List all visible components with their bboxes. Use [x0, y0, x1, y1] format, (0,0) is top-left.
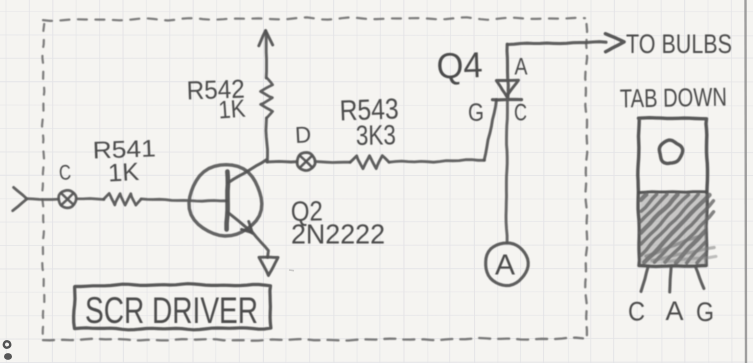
package pins	[641, 266, 704, 292]
resistor R541	[104, 193, 141, 205]
resistor R542	[261, 78, 273, 118]
svg-text:C: C	[58, 161, 72, 185]
svg-text:G: G	[696, 297, 714, 327]
node C	[58, 161, 76, 208]
svg-text:TAB DOWN: TAB DOWN	[620, 82, 728, 114]
svg-text:Q4: Q4	[436, 44, 483, 87]
svg-text:1K: 1K	[107, 158, 140, 188]
input wire with arrow	[13, 187, 59, 210]
label Q4	[436, 44, 483, 87]
svg-text:A: A	[515, 54, 528, 81]
svg-text:D: D	[294, 121, 311, 148]
label R543 3K3	[339, 93, 399, 151]
wire node C to R541	[76, 199, 104, 200]
wire R543 to SCR gate	[389, 100, 497, 163]
pin label G	[468, 99, 484, 127]
pin label C	[514, 100, 527, 127]
svg-text:TO BULBS: TO BULBS	[626, 29, 732, 59]
wire collector to R542	[266, 118, 268, 162]
wire R541 to Q2 base	[141, 199, 227, 201]
svg-text:C: C	[514, 100, 527, 127]
svg-text:G: G	[468, 99, 484, 127]
svg-text:2N2222: 2N2222	[291, 219, 385, 250]
wire emitter to ground	[253, 233, 269, 258]
svg-text:3K3: 3K3	[356, 119, 397, 151]
svg-text:C: C	[628, 297, 645, 327]
transistor Q2	[189, 160, 267, 236]
node A	[486, 243, 529, 286]
svg-text:A: A	[666, 296, 684, 326]
wire cathode to node A	[506, 100, 507, 242]
ground	[259, 257, 278, 275]
label SCR DRIVER	[74, 284, 271, 331]
wire anode to bulbs	[507, 34, 624, 99]
wire node D to R543	[315, 162, 350, 163]
label TO BULBS	[626, 29, 732, 59]
label TAB DOWN	[620, 82, 728, 114]
label R542 1K	[186, 73, 246, 124]
enclosure dashed border	[42, 17, 587, 340]
pin labels C A G	[628, 296, 714, 327]
svg-text:A: A	[495, 250, 516, 282]
SCR package (tab-down view)	[638, 118, 716, 267]
resistor R543	[350, 156, 389, 169]
svg-text:SCR DRIVER: SCR DRIVER	[85, 290, 258, 331]
label Q2 2N2222	[291, 195, 385, 249]
supply arrow	[259, 31, 273, 79]
label R541 1K	[92, 135, 156, 187]
wire junction to node D	[267, 160, 297, 164]
svg-text:1K: 1K	[217, 95, 246, 125]
SCR Q4	[493, 80, 522, 100]
pin label A	[515, 54, 528, 81]
node D	[294, 121, 315, 170]
